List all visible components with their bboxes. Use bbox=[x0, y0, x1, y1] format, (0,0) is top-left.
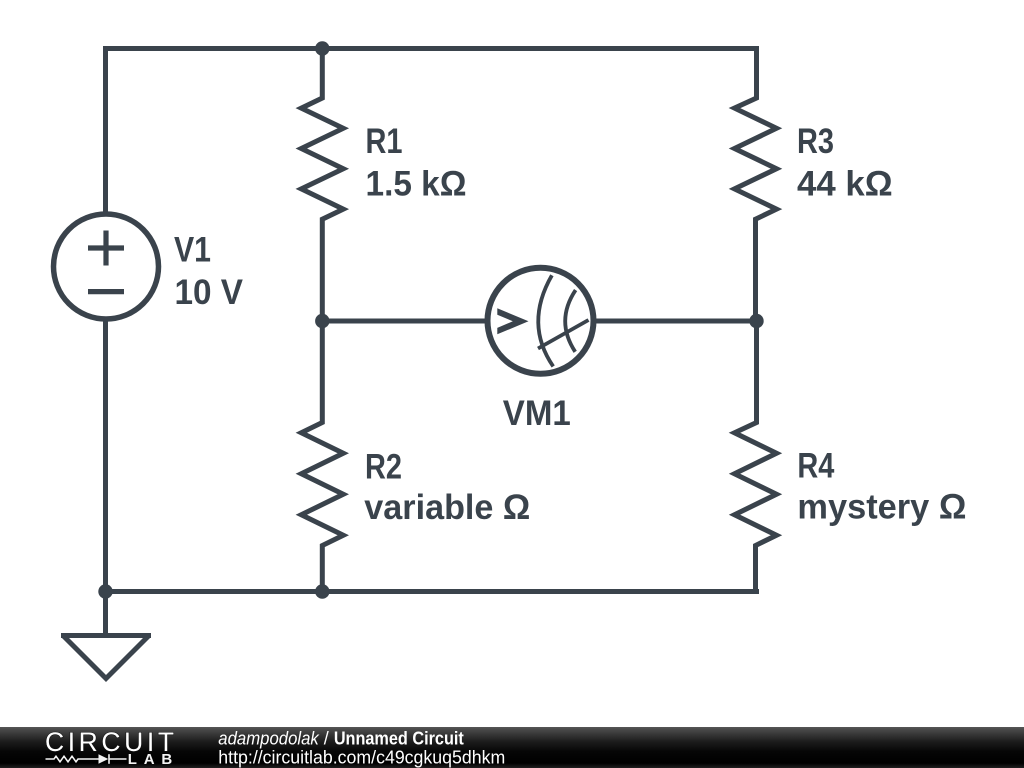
wire top horizontal bbox=[106, 49, 757, 52]
wire middle right (voltmeter to right column) bbox=[594, 319, 757, 324]
voltmeter VM1 bbox=[488, 268, 594, 374]
resistor R2 bbox=[301, 321, 343, 592]
svg-text:adampodolak / Unnamed Circuit: adampodolak / Unnamed Circuit bbox=[218, 729, 464, 749]
node dot bottom-left (ground) bbox=[98, 584, 112, 598]
node dot mid-left bbox=[315, 314, 329, 328]
node dot top (R1/top wire) bbox=[315, 41, 329, 55]
V1 minus sign bbox=[88, 289, 124, 294]
meter needle bbox=[538, 320, 589, 349]
svg-text:http://circuitlab.com/c49cgkuq: http://circuitlab.com/c49cgkuq5dhkm bbox=[218, 748, 505, 768]
resistor R1 bbox=[301, 49, 343, 322]
voltage source V1 bbox=[54, 214, 159, 319]
node dot bottom (R2/bottom wire) bbox=[315, 584, 329, 598]
meter scale arc outer bbox=[538, 275, 553, 366]
CircuitLab logo resistor-diode bbox=[46, 754, 127, 764]
svg-text:R2: R2 bbox=[365, 447, 402, 486]
resistor R3 bbox=[735, 49, 777, 322]
V glyph (rotated, points right) bbox=[497, 308, 528, 334]
V1 body circle bbox=[54, 214, 159, 319]
svg-text:V1: V1 bbox=[174, 231, 211, 270]
wire left upper (top wire to V1) bbox=[103, 49, 108, 215]
ground bbox=[61, 592, 151, 679]
svg-text:10 V: 10 V bbox=[175, 273, 244, 312]
svg-text:variable Ω: variable Ω bbox=[364, 488, 530, 527]
svg-text:LAB: LAB bbox=[128, 751, 173, 768]
node dot mid-right bbox=[749, 314, 763, 328]
resistor R4 bbox=[735, 321, 777, 592]
svg-text:mystery Ω: mystery Ω bbox=[797, 487, 966, 526]
meter scale arc inner bbox=[565, 290, 575, 352]
ground top bar bbox=[61, 633, 151, 638]
svg-text:R1: R1 bbox=[366, 122, 403, 161]
V1 plus sign bbox=[88, 231, 124, 266]
svg-text:44 kΩ: 44 kΩ bbox=[797, 165, 893, 204]
svg-text:VM1: VM1 bbox=[503, 394, 571, 433]
ground triangle bbox=[64, 636, 149, 679]
wire bottom horizontal bbox=[106, 589, 757, 592]
svg-text:R3: R3 bbox=[797, 122, 834, 161]
svg-text:1.5 kΩ: 1.5 kΩ bbox=[366, 165, 467, 204]
ground stub wire bbox=[103, 592, 108, 636]
svg-text:R4: R4 bbox=[797, 446, 835, 485]
wire middle left (node to voltmeter) bbox=[322, 319, 487, 324]
wire left lower (V1 to bottom wire) bbox=[103, 319, 108, 592]
